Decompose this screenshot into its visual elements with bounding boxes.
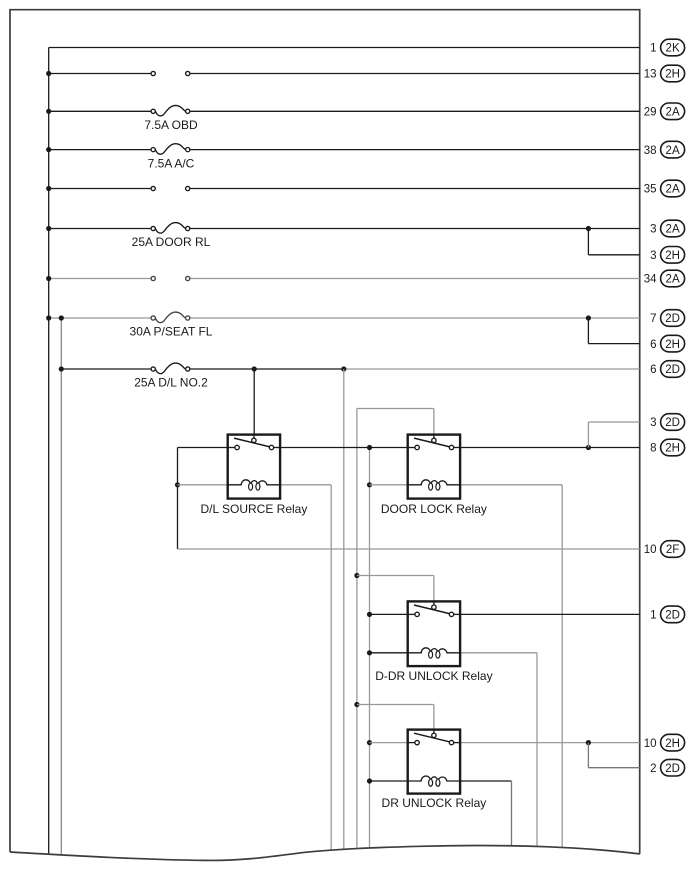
- svg-text:2A: 2A: [666, 274, 680, 286]
- wire net down from 6 2D: [343, 369, 345, 850]
- svg-text:25A DOOR RL: 25A DOOR RL: [132, 235, 211, 249]
- junction bus A row 35: [46, 186, 51, 191]
- wire row 10 2F: [178, 548, 640, 550]
- fuse 7.5A OBD: [151, 105, 190, 116]
- wire DR coil leads: [370, 781, 512, 846]
- fuse 30A P/SEAT FL: [151, 312, 190, 323]
- connector pin 6 2H: [650, 335, 685, 352]
- fuse 25A DOOR RL: [151, 223, 190, 234]
- svg-text:1: 1: [650, 610, 656, 622]
- bus wire B: [60, 318, 62, 855]
- wire DOOR LOCK relay feed stub: [433, 434, 435, 436]
- wire stub to 3 2D: [588, 422, 639, 448]
- junction switch row common: [367, 445, 372, 450]
- svg-text:2F: 2F: [666, 544, 679, 556]
- fuse 25A D/L NO.2: [151, 363, 190, 374]
- svg-text:2A: 2A: [666, 145, 680, 157]
- wire DOOR LOCK coil leads: [370, 485, 563, 847]
- wire row 1 2K: [49, 47, 640, 49]
- svg-text:D/L SOURCE Relay: D/L SOURCE Relay: [200, 502, 307, 516]
- svg-text:7.5A OBD: 7.5A OBD: [144, 118, 198, 132]
- connector pin 10 2H: [644, 734, 685, 751]
- wire row 29 2A: [49, 110, 640, 112]
- junction bus A row 34: [46, 276, 51, 281]
- connector pin 29 2A: [644, 103, 685, 120]
- svg-text:30A P/SEAT FL: 30A P/SEAT FL: [130, 325, 213, 339]
- junction bus B row 6 2D: [59, 366, 64, 371]
- svg-text:1: 1: [650, 43, 656, 55]
- svg-text:2H: 2H: [665, 443, 680, 455]
- wire row 35 2A: [49, 188, 640, 190]
- connector pin 6 2D: [650, 361, 685, 378]
- connector pin 1 2D: [650, 606, 685, 623]
- svg-text:DOOR LOCK Relay: DOOR LOCK Relay: [381, 502, 487, 516]
- svg-text:2D: 2D: [665, 313, 680, 325]
- svg-text:DR UNLOCK Relay: DR UNLOCK Relay: [382, 796, 487, 810]
- wire switch row D/L SOURCE to DOOR LOCK: [280, 447, 408, 449]
- svg-text:2D: 2D: [665, 610, 680, 622]
- svg-text:2: 2: [650, 763, 656, 775]
- svg-text:38: 38: [644, 145, 657, 157]
- junction row 8 2H branch: [586, 445, 591, 450]
- svg-text:13: 13: [644, 69, 657, 81]
- connector pin 34 2A: [644, 270, 685, 287]
- fuse 7.5A A/C: [151, 144, 190, 155]
- wire D/L SOURCE relay feed: [253, 369, 255, 435]
- svg-text:3: 3: [650, 250, 656, 262]
- svg-text:7.5A A/C: 7.5A A/C: [148, 156, 195, 170]
- junction coil feed left: [175, 482, 180, 487]
- wire switch row left: [178, 448, 228, 550]
- wire DR relay top loop: [357, 705, 434, 730]
- boundary continuation wave: [10, 846, 640, 861]
- connector pin 3 2A: [650, 220, 685, 237]
- relay DR UNLOCK: [408, 730, 460, 794]
- svg-text:2H: 2H: [665, 738, 680, 750]
- svg-text:2D: 2D: [665, 417, 680, 429]
- junction row 6 2D to D/L SOURCE relay: [252, 366, 257, 371]
- relay D-DR UNLOCK: [408, 601, 460, 666]
- wire common net vertical: [369, 448, 371, 849]
- bus wire A: [48, 48, 50, 855]
- connector pin 1 2K: [650, 39, 685, 56]
- wire row 7 2D: [49, 317, 640, 319]
- connector pin 8 2H: [650, 439, 685, 456]
- connector pin 13 2H: [644, 65, 685, 82]
- wire stub to 6 2H: [588, 318, 639, 344]
- svg-text:10: 10: [644, 544, 657, 556]
- svg-text:6: 6: [650, 364, 656, 376]
- junction row 6 2D to net down: [341, 366, 346, 371]
- svg-text:2A: 2A: [666, 107, 680, 119]
- wire row 1 2D: [370, 613, 640, 615]
- junction D-DR coil common: [367, 650, 372, 655]
- svg-text:D-DR UNLOCK Relay: D-DR UNLOCK Relay: [375, 669, 492, 683]
- junction bus B tap: [59, 315, 64, 320]
- junction DR switch common: [367, 740, 372, 745]
- connector pin 10 2F: [644, 541, 685, 558]
- junction bus A row 13: [46, 71, 51, 76]
- junction DR relay feed: [354, 702, 359, 707]
- svg-text:25A D/L NO.2: 25A D/L NO.2: [134, 376, 208, 390]
- svg-text:2H: 2H: [665, 250, 680, 262]
- open contacts row 34 2A: [151, 276, 190, 280]
- connector pin 2 2D: [650, 759, 685, 776]
- relay D/L SOURCE: [228, 435, 280, 499]
- junction D-DR relay feed: [354, 573, 359, 578]
- svg-text:34: 34: [644, 274, 657, 286]
- wire D/L SOURCE coil leads: [178, 485, 332, 851]
- connector pin 7 2D: [650, 310, 685, 327]
- svg-text:2D: 2D: [665, 763, 680, 775]
- wire row 8 2H: [460, 447, 640, 449]
- svg-text:2H: 2H: [665, 69, 680, 81]
- svg-text:2D: 2D: [665, 364, 680, 376]
- junction row 3 2A branch: [586, 226, 591, 231]
- junction row 7 2D branch: [586, 315, 591, 320]
- wire stub to 3 2H: [588, 229, 639, 255]
- junction bus A row 29: [46, 109, 51, 114]
- svg-text:35: 35: [644, 184, 657, 196]
- connector pin 3 2D: [650, 414, 685, 431]
- svg-text:29: 29: [644, 107, 657, 119]
- junction bus A row 3 2A: [46, 226, 51, 231]
- svg-text:7: 7: [650, 313, 656, 325]
- connector pin 38 2A: [644, 141, 685, 158]
- svg-text:6: 6: [650, 339, 656, 351]
- wire row 38 2A: [49, 149, 640, 151]
- wire row 34 2A: [49, 278, 640, 280]
- wire stub to 2 2D: [588, 743, 639, 768]
- svg-text:10: 10: [644, 738, 657, 750]
- wire row 13 2H: [49, 73, 640, 75]
- junction row 10 2H branch: [586, 740, 591, 745]
- junction DOOR LOCK coil common: [367, 482, 372, 487]
- wire row 10 2H: [370, 742, 640, 744]
- junction bus A row 38: [46, 147, 51, 152]
- junction bus A row 7 2D: [46, 315, 51, 320]
- junction DR coil common: [367, 778, 372, 783]
- svg-text:3: 3: [650, 417, 656, 429]
- svg-text:2K: 2K: [666, 43, 680, 55]
- connector pin 35 2A: [644, 180, 685, 197]
- wire relay supply net vertical: [356, 409, 358, 850]
- svg-text:8: 8: [650, 443, 656, 455]
- wire row 3 2A: [49, 228, 640, 230]
- svg-text:2H: 2H: [665, 339, 680, 351]
- open contacts row 13 2H: [151, 71, 190, 75]
- relay DOOR LOCK: [408, 435, 460, 499]
- svg-text:3: 3: [650, 224, 656, 236]
- wire D-DR relay top loop: [357, 576, 434, 602]
- wire D-DR coil leads: [370, 653, 538, 847]
- wire DOOR LOCK relay top loop: [357, 409, 434, 435]
- wire row 6 2D: [61, 368, 639, 370]
- connector pin 3 2H: [650, 247, 685, 264]
- svg-text:2A: 2A: [666, 184, 680, 196]
- open contacts row 35 2A: [151, 186, 190, 190]
- svg-text:2A: 2A: [666, 224, 680, 236]
- junction D-DR switch common: [367, 612, 372, 617]
